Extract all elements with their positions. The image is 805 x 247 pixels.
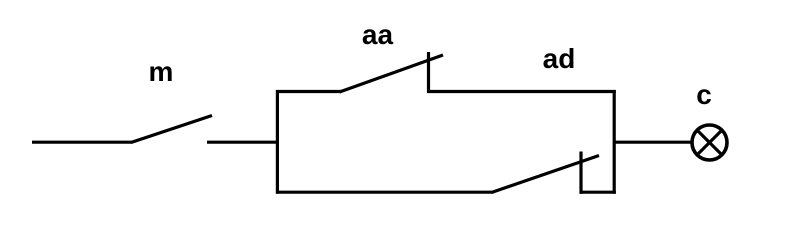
wire top rail right — [427, 90, 616, 93]
contact aa blade — [340, 55, 444, 92]
svg-text:ad: ad — [543, 43, 576, 74]
contact ad terminal tick — [579, 152, 582, 194]
contact ad blade — [492, 156, 600, 193]
svg-text:m: m — [149, 56, 174, 87]
switch m blade — [131, 116, 212, 143]
svg-text:aa: aa — [362, 19, 394, 50]
wire bottom rail left — [276, 191, 493, 194]
wire input left — [32, 141, 132, 144]
wire output to lamp — [613, 141, 691, 144]
node right junction bar — [613, 90, 616, 194]
wire top rail left — [276, 90, 341, 93]
svg-text:c: c — [696, 79, 712, 110]
node left junction bar — [276, 90, 279, 194]
lamp c symbol — [692, 125, 727, 160]
wire bottom rail right — [580, 191, 616, 194]
contact aa terminal tick — [427, 52, 430, 92]
wire m to junction — [207, 141, 279, 144]
